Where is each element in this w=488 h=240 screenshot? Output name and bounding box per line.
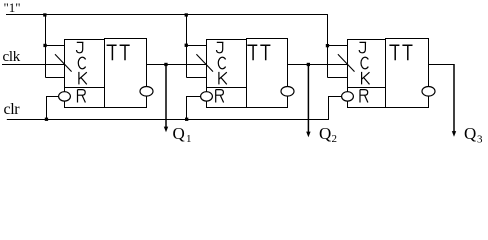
wire FF2 drop from "1" rail to J and K: [186, 15, 188, 78]
wire FF1 R riser: [46, 97, 48, 120]
U1 TT label: [107, 45, 130, 60]
flip-flop U2 TT box: [247, 39, 288, 108]
svg-text:2: 2: [332, 133, 338, 145]
flip-flop U3 TT box: [386, 39, 429, 108]
U2 C dynamic-input slash: [196, 54, 213, 71]
arrowhead Q2: [306, 132, 310, 138]
U3 R section divider: [348, 87, 386, 89]
svg-text:Q: Q: [464, 124, 476, 143]
U1 R section divider: [65, 87, 105, 89]
wire FF1 J input: [46, 45, 65, 47]
svg-text:1: 1: [186, 133, 192, 145]
U3 R input bubble: [342, 92, 354, 101]
junction clr at FF2 R riser: [185, 118, 188, 121]
wire FF2 J input: [187, 45, 207, 47]
U2 R section divider: [207, 87, 247, 89]
wire FF1 drop from "1" rail to J and K: [45, 15, 47, 78]
U2 output bubble: [281, 87, 294, 97]
U2 TT label: [247, 45, 270, 60]
wire U2 Q to U3 clock: [288, 64, 348, 66]
wire U3 Q output horizontal: [429, 64, 455, 66]
U3 pin labels J C K: [359, 42, 369, 84]
svg-text:clr: clr: [4, 101, 21, 118]
junction FF1 J branch: [43, 44, 46, 47]
wire clr rail: [7, 119, 329, 121]
svg-text:3: 3: [477, 134, 483, 146]
U1 output bubble: [140, 87, 153, 97]
svg-text:Q: Q: [319, 124, 331, 143]
wire FF3 J input: [328, 45, 348, 47]
wire Q1 output shaft: [165, 65, 167, 129]
U3 TT label: [389, 45, 412, 60]
wire FF3 R riser from clr rail corner: [328, 97, 330, 120]
wire FF3 K input: [328, 77, 348, 79]
junction on "1" rail at FF1 drop: [43, 13, 46, 16]
wire FF2 R riser: [186, 97, 188, 120]
arrowhead Q3: [452, 131, 456, 137]
svg-text:clk: clk: [3, 49, 21, 65]
U1 pin labels J C K: [77, 42, 87, 84]
flip-flop U2 input box: [207, 40, 247, 108]
flip-flop U1 input box: [65, 40, 105, 108]
junction Q2: [307, 63, 310, 66]
U3 pin label R: [360, 90, 368, 103]
wire FF2 R stub: [186, 96, 201, 98]
junction Q1: [164, 63, 167, 66]
flip-flop U3 input box: [348, 40, 386, 108]
wire FF3 R stub: [328, 96, 342, 98]
junction clr at FF1 R riser: [45, 118, 48, 121]
arrowhead Q1: [164, 127, 168, 133]
U3 output bubble: [422, 87, 435, 97]
U2 pin labels J C K: [217, 42, 227, 84]
junction on "1" rail at FF2 drop: [185, 13, 188, 16]
wire Q3 output shaft: [453, 64, 455, 133]
U2 pin label R: [216, 90, 224, 103]
wire "1" rail: [6, 14, 328, 16]
svg-text:"1": "1": [4, 0, 21, 15]
wire clk to U1 C input: [2, 64, 65, 66]
flip-flop U1 TT box: [105, 39, 147, 108]
junction FF2 J branch: [185, 44, 188, 47]
svg-text:Q: Q: [173, 124, 185, 143]
U3 C dynamic-input slash: [338, 54, 355, 71]
U2 R input bubble: [201, 92, 213, 101]
U1 C dynamic-input slash: [55, 54, 72, 71]
junction FF3 J branch: [326, 44, 329, 47]
wire FF1 R stub: [46, 96, 59, 98]
wire U1 Q to U2 clock: [147, 64, 207, 66]
wire FF2 K input: [187, 77, 207, 79]
U1 pin label R: [78, 90, 86, 103]
wire FF3 drop from "1" rail corner to J and K: [327, 15, 329, 78]
wire FF1 K input: [46, 77, 65, 79]
U1 R input bubble: [59, 92, 71, 101]
wire Q2 output shaft: [307, 65, 309, 134]
